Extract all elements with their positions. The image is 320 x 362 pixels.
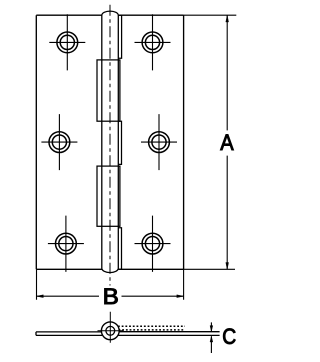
knuckle segment C (right bulge) [118,121,121,164]
side view barrel circle [101,322,119,340]
screw hole middle-right [141,114,177,170]
knuckle segment A (top right bulge) [118,15,121,58]
screw hole bottom-right [135,216,171,272]
knuckle segment D (wide left) [97,166,120,226]
hinge leaf plate outline (front view) [36,15,183,269]
dimension B extension lines [37,269,184,300]
knuckle segment E (bottom right bulge) [118,228,121,269]
dimension B line with arrows [37,295,184,298]
barrel center line (dash-dot) [109,5,111,286]
knuckle segment B (wide left) [97,60,120,121]
screw hole top-right [135,14,171,70]
dimension A line with arrows [226,15,229,269]
side view right leaf (solid) [118,332,219,336]
svg-text:C: C [222,324,236,349]
screw hole top-left [49,14,85,70]
dimension C arrows [210,322,213,353]
svg-text:B: B [103,284,119,309]
side view left leaf [36,332,102,336]
side view pin circle [106,326,115,335]
svg-text:A: A [220,130,234,155]
side view folded leaf (hidden, dotted) [118,326,185,330]
side view center cross [98,312,124,343]
screw hole bottom-left [48,216,84,272]
screw hole middle-left [41,114,77,170]
dimension A extension lines [184,15,237,269]
knuckle barrel tube [102,11,119,272]
